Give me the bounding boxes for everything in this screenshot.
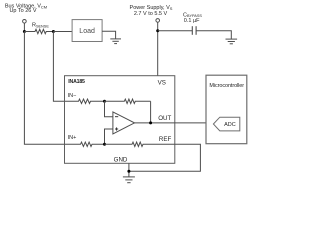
wire terminal to bus node <box>23 23 25 31</box>
wire feedback down to out <box>150 101 152 123</box>
node E junction dot <box>103 143 106 146</box>
wire node B to load <box>53 31 72 33</box>
node Bus Voltage label <box>5 3 47 13</box>
wire node B down to IN- <box>53 32 64 102</box>
wire capacitor to ground <box>196 31 231 39</box>
wire inverting input <box>105 101 113 116</box>
node F junction dot out <box>149 121 152 124</box>
svg-text:IN+: IN+ <box>68 135 77 141</box>
wire bus node down to IN+ <box>24 32 64 145</box>
op-amp U1 INA185 box <box>65 76 175 164</box>
resistor RSENSE <box>24 29 53 33</box>
resistor REF path <box>105 142 175 146</box>
node A junction dot <box>23 30 26 33</box>
svg-text:INA185: INA185 <box>68 79 85 85</box>
capacitor CBYPASS <box>192 26 196 35</box>
svg-text:IN−: IN− <box>68 93 77 99</box>
node Power Supply label <box>130 5 173 17</box>
resistor input IN+ <box>65 142 105 146</box>
svg-text:OUT: OUT <box>158 115 171 122</box>
op-amp A1 triangle <box>113 112 135 134</box>
svg-text:Up To 26 V: Up To 26 V <box>9 8 36 14</box>
wire load to ground <box>102 31 116 39</box>
svg-text:GND: GND <box>114 156 128 163</box>
node C junction dot supply <box>156 29 159 32</box>
resistor input IN- <box>65 99 105 103</box>
svg-text:VS: VS <box>158 80 166 87</box>
ground supply <box>226 39 238 44</box>
node G junction dot gnd <box>127 170 130 173</box>
svg-text:Load: Load <box>79 28 95 35</box>
ground load <box>110 39 121 44</box>
node D junction dot <box>103 100 106 103</box>
load box <box>72 20 102 42</box>
wire output to ADC <box>135 122 214 124</box>
wire supply node to capacitor <box>158 30 193 32</box>
svg-text:REF: REF <box>159 136 172 143</box>
svg-text:RSENSE: RSENSE <box>32 23 49 29</box>
ADC block <box>213 117 239 131</box>
wire non-inverting input <box>105 129 113 144</box>
wire GND pin down <box>128 163 130 176</box>
svg-text:ADC: ADC <box>224 122 236 128</box>
wire supply terminal to VS pin <box>157 22 159 75</box>
svg-text:Microcontroller: Microcontroller <box>209 83 244 89</box>
node B junction dot <box>52 30 55 33</box>
ground signal <box>123 177 135 183</box>
terminal bus voltage <box>23 20 27 24</box>
svg-text:2.7 V to 5.5 V: 2.7 V to 5.5 V <box>134 11 168 17</box>
microcontroller box <box>206 75 247 144</box>
terminal power supply <box>156 19 160 23</box>
wire REF wrap to ground <box>129 144 201 171</box>
resistor feedback <box>105 99 151 103</box>
capacitor CBYPASS label <box>183 12 202 24</box>
svg-text:0.1 µF: 0.1 µF <box>184 18 200 24</box>
